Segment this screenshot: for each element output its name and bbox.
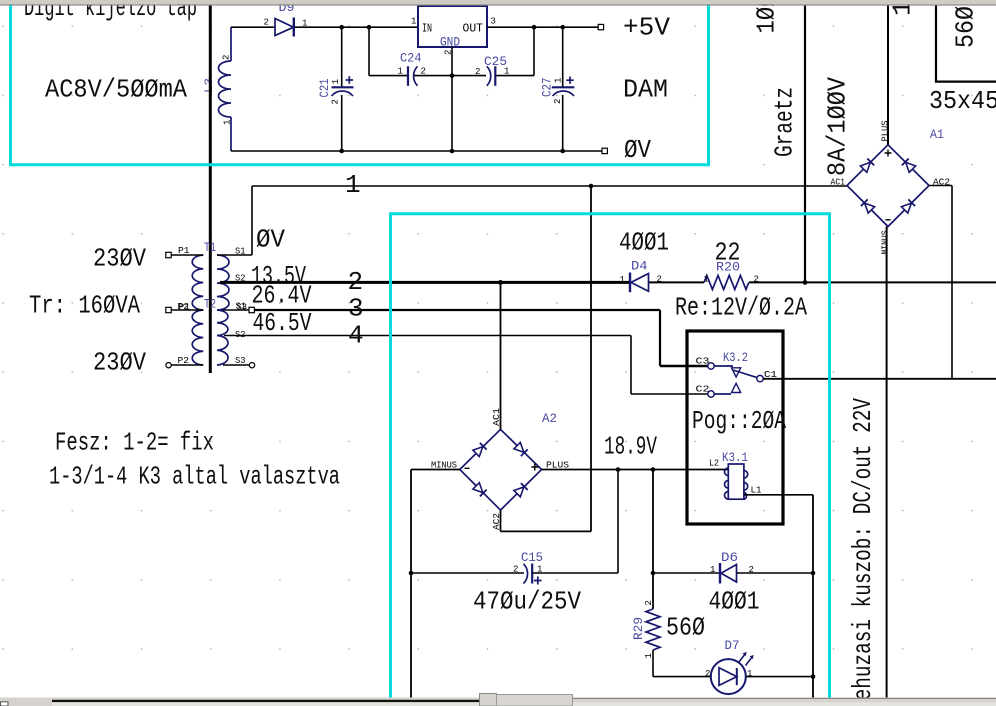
svg-text:AC1: AC1 [831, 178, 846, 188]
wire P2/P1 mid [171, 309, 203, 311]
svg-text:2: 2 [264, 18, 269, 28]
svg-text:ØV: ØV [256, 225, 285, 255]
transformer T2 secondary winding S1-S2-S3 [217, 310, 228, 365]
cyan frame rect1 (5V supply block) [11, 4, 709, 165]
window chrome top bar [0, 0, 996, 4]
node junction D6 wire [651, 571, 656, 576]
svg-text:1: 1 [747, 669, 752, 679]
svg-text:2: 2 [421, 67, 426, 77]
wire A2 AC1 riser to net2 [500, 282, 502, 429]
svg-text:1: 1 [345, 170, 361, 200]
svg-text:1: 1 [704, 274, 709, 284]
relay coil K3.1 [725, 464, 748, 499]
node junction 18.9V/C15 riser [616, 467, 621, 472]
bridge rectifier A1 diamond [847, 145, 929, 227]
svg-text:8A/1ØØV: 8A/1ØØV [823, 77, 853, 176]
wire net4 down leg [630, 336, 632, 395]
svg-text:A1: A1 [930, 127, 944, 142]
A1 diode upper-left [860, 159, 874, 173]
svg-text:1: 1 [710, 565, 715, 575]
svg-text:56Ø: 56Ø [951, 6, 981, 48]
wire C24 branch [369, 27, 408, 76]
svg-text:18.9V: 18.9V [604, 432, 657, 462]
svg-text:Pog::2ØA: Pog::2ØA [692, 406, 786, 436]
wire net2 R20 to right edge [749, 281, 996, 283]
wire net4 horizontal [224, 335, 631, 337]
A1 diode lower-right [901, 199, 915, 213]
transformer T2 primary winding [192, 310, 203, 365]
svg-text:P2: P2 [178, 356, 190, 366]
svg-text:D4: D4 [631, 259, 648, 274]
relay contact K3.2 circle C3 [708, 363, 714, 369]
svg-text:2: 2 [657, 275, 662, 285]
wire net3 down leg [659, 310, 661, 366]
node junction dots OUT rail [532, 25, 537, 30]
svg-text:1-3/1-4 K3 altal valasztva: 1-3/1-4 K3 altal valasztva [49, 462, 340, 492]
wire top rail left segment [231, 26, 276, 28]
wire x813 vertical [812, 495, 814, 698]
plus mark A2 [531, 464, 538, 471]
svg-text:2: 2 [222, 55, 232, 60]
svg-text:C2: C2 [696, 385, 710, 395]
A1 diode lower-left [861, 199, 875, 213]
svg-text:2: 2 [705, 669, 710, 679]
A2 diode upper-left [473, 443, 487, 457]
node junction LED/x813 [811, 674, 816, 679]
node junction dots ground rail [339, 149, 344, 154]
wire x805 vertical from top to net2 [804, 5, 806, 283]
wire A1 MINUS down to bottom [886, 227, 888, 699]
transformer T1 secondary winding S1-S2-S3 [217, 255, 229, 310]
K3.2 stub C3 [714, 365, 733, 367]
svg-text:P1: P1 [178, 246, 190, 256]
K3.2 stub C2 [714, 393, 731, 395]
svg-text:T1: T1 [204, 240, 216, 255]
wire top rail from D9 to IC IN pin 1 [293, 26, 418, 28]
terminal S mid square [249, 307, 254, 312]
svg-text:D7: D7 [725, 638, 740, 653]
svg-text:3: 3 [348, 294, 364, 324]
wire A1 PLUS up to top edge [887, 5, 889, 145]
svg-text:behuzasi kuszob: DC/out 22V: behuzasi kuszob: DC/out 22V [848, 398, 878, 706]
svg-text:K3.1: K3.1 [722, 450, 748, 465]
capacitor C21 (electrolytic) [332, 27, 354, 151]
resistor R29 [646, 609, 660, 650]
wire A2 AC2 horizontal [501, 530, 592, 532]
A2 diode lower-right [514, 483, 528, 497]
svg-text:T2: T2 [204, 297, 216, 312]
wire R29 branch vertical upper [652, 470, 654, 610]
window chrome bottom scrollbar area [0, 698, 996, 706]
wire S1 to 0V riser [217, 254, 252, 256]
svg-text:1: 1 [620, 275, 625, 285]
svg-text:IN: IN [422, 22, 432, 36]
wire C1 to right edge [763, 378, 996, 380]
terminal S3 circle [249, 363, 254, 368]
K3.2 blade [733, 370, 757, 378]
svg-text:23ØV: 23ØV [93, 348, 146, 378]
wire P2 bottom [171, 364, 203, 366]
svg-text:A2: A2 [542, 411, 557, 426]
terminal +5V [598, 24, 603, 29]
wire P1 [171, 254, 203, 256]
svg-text:C21: C21 [317, 78, 332, 97]
wire A2 AC2 down [500, 510, 502, 531]
svg-text:GND: GND [440, 35, 460, 50]
node junction C24/C25/GND [450, 73, 455, 78]
wire C15 net left [411, 572, 524, 574]
svg-text:23ØV: 23ØV [93, 244, 146, 274]
svg-text:ØV: ØV [624, 135, 651, 165]
svg-text:3: 3 [491, 17, 496, 27]
svg-text:K3.2: K3.2 [723, 350, 748, 365]
svg-text:1: 1 [331, 79, 341, 84]
svg-text:4ØØ1: 4ØØ1 [619, 228, 669, 258]
svg-text:C15: C15 [521, 550, 543, 565]
svg-text:Graetz: Graetz [770, 87, 800, 157]
wire D6 left segment [653, 572, 720, 574]
svg-text:1: 1 [411, 17, 416, 27]
node junction net2 / x805 riser [803, 280, 808, 285]
svg-text:56Ø: 56Ø [666, 613, 705, 643]
wire net2 D4 to R20 [648, 281, 704, 283]
svg-text:2: 2 [475, 67, 480, 77]
svg-text:C24: C24 [400, 51, 422, 66]
wire 18.9V rail PLUS to relay coil [542, 469, 729, 471]
svg-text:Fesz: 1-2= fix: Fesz: 1-2= fix [55, 428, 214, 458]
relay contact K3.2 circle C2 [708, 391, 714, 397]
svg-text:26.4V: 26.4V [252, 281, 312, 311]
A2 diode lower-left [473, 483, 487, 497]
wire D6 right segment [737, 572, 814, 574]
terminal P2 circle [166, 363, 171, 368]
svg-text:Re:12V/Ø.2A: Re:12V/Ø.2A [675, 293, 807, 323]
wire net1 horizontal to bridge A1 AC1 [252, 185, 847, 187]
K3.2 throw triangle down [732, 368, 741, 377]
svg-text:46.5V: 46.5V [253, 308, 312, 338]
diode D4 [630, 273, 649, 293]
svg-text:P1: P1 [179, 303, 191, 313]
svg-text:2: 2 [754, 274, 759, 284]
svg-text:1: 1 [398, 67, 403, 77]
relay outline box K3 [687, 331, 783, 524]
svg-text:S1: S1 [235, 246, 246, 256]
capacitor C15 (electrolytic) [524, 564, 542, 585]
svg-text:22: 22 [715, 238, 741, 268]
node: junction dots on +8V rail [339, 25, 344, 30]
wire OUT rail to +5V terminal [487, 26, 598, 28]
transformer core / frame line x=210 [209, 5, 212, 373]
terminal P1 square [166, 252, 171, 257]
capacitor C24 [408, 66, 452, 86]
wire A1 AC2 to riser x952 [929, 185, 952, 187]
svg-text:2: 2 [331, 99, 341, 104]
svg-text:1: 1 [554, 78, 564, 83]
minus mark A2 [465, 467, 470, 469]
diode D9 [275, 18, 294, 37]
bridge rectifier A2 diamond [460, 429, 542, 510]
wire A2 MINUS left [411, 469, 460, 471]
cyan frame rect2 (power block) [391, 214, 830, 699]
svg-text:2: 2 [513, 565, 518, 575]
capacitor C27 (electrolytic) [552, 27, 575, 151]
wire net2 thick segment through D4 [220, 281, 630, 284]
wire LED to x813 [746, 676, 813, 678]
wire GND vertical pin2 [451, 47, 453, 151]
svg-text:4: 4 [348, 321, 364, 351]
node junction net1/A2 riser [589, 184, 594, 189]
svg-text:1: 1 [302, 19, 307, 29]
LED D7 [711, 652, 754, 694]
wire net4 to relay contact C2 [631, 393, 708, 395]
node junction D6/x813 [811, 571, 816, 576]
svg-text:47Øu/25V: 47Øu/25V [473, 587, 581, 617]
node junction 18.9V/R29 branch [651, 467, 656, 472]
wire mid tap to terminal [223, 309, 249, 311]
wire S3 bottom [223, 364, 249, 366]
wire C25 branch [452, 27, 534, 75]
regulator IC box [418, 6, 487, 47]
wire L1 out of relay [744, 494, 813, 496]
svg-text:2: 2 [553, 99, 563, 104]
wire riser x591 to net1 [590, 186, 592, 531]
svg-text:+5V: +5V [623, 13, 670, 43]
resistor R20 [704, 275, 749, 289]
svg-text:MINUS: MINUS [880, 231, 890, 255]
svg-text:2: 2 [348, 267, 364, 297]
svg-text:Tr: 16ØVA: Tr: 16ØVA [29, 291, 140, 321]
node junction net2 / A2 AC1 branch [498, 280, 503, 285]
wire riser x952 [951, 186, 953, 379]
transformer T1 primary winding [192, 255, 203, 310]
wire MINUS down left side [410, 470, 412, 699]
A1 diode upper-right [902, 159, 916, 173]
svg-text:C3: C3 [696, 357, 710, 367]
svg-text:C27: C27 [540, 78, 555, 98]
svg-text:2: 2 [644, 600, 654, 605]
relay contact K3.2 circle C1 [757, 375, 763, 381]
inductor L3 [219, 27, 232, 151]
svg-text:4ØØ1: 4ØØ1 [709, 587, 760, 617]
svg-text:L2: L2 [709, 459, 719, 469]
svg-text:D6: D6 [721, 550, 738, 565]
terminal P2 mid square [166, 307, 171, 312]
capacitor C25 [487, 66, 496, 86]
wire C15 net right + riser [532, 470, 618, 574]
minus mark A1 [886, 219, 891, 221]
partial component box top-right corner [936, 5, 996, 82]
svg-text:1: 1 [223, 120, 233, 125]
terminal 0V [602, 148, 607, 153]
wire net3 horizontal [255, 309, 661, 311]
svg-text:DAM: DAM [623, 75, 668, 105]
svg-text:AC8V/5ØØmA: AC8V/5ØØmA [45, 75, 187, 105]
wire net3 to relay contact C3 [660, 365, 708, 368]
node junction C15/MINUS riser [409, 571, 414, 576]
svg-text:R29: R29 [631, 617, 646, 640]
svg-text:1: 1 [504, 67, 509, 77]
wire R29 to LED [653, 650, 711, 677]
K3.2 throw triangle up [732, 383, 741, 392]
svg-text:35x45: 35x45 [929, 86, 996, 116]
wire ground rail y=151 [231, 150, 602, 152]
svg-text:OUT: OUT [463, 22, 484, 36]
diode D6 [720, 563, 737, 584]
wire net1 riser from S1 [251, 186, 253, 255]
plus mark A1 [885, 150, 892, 157]
A2 diode upper-right [514, 442, 528, 456]
